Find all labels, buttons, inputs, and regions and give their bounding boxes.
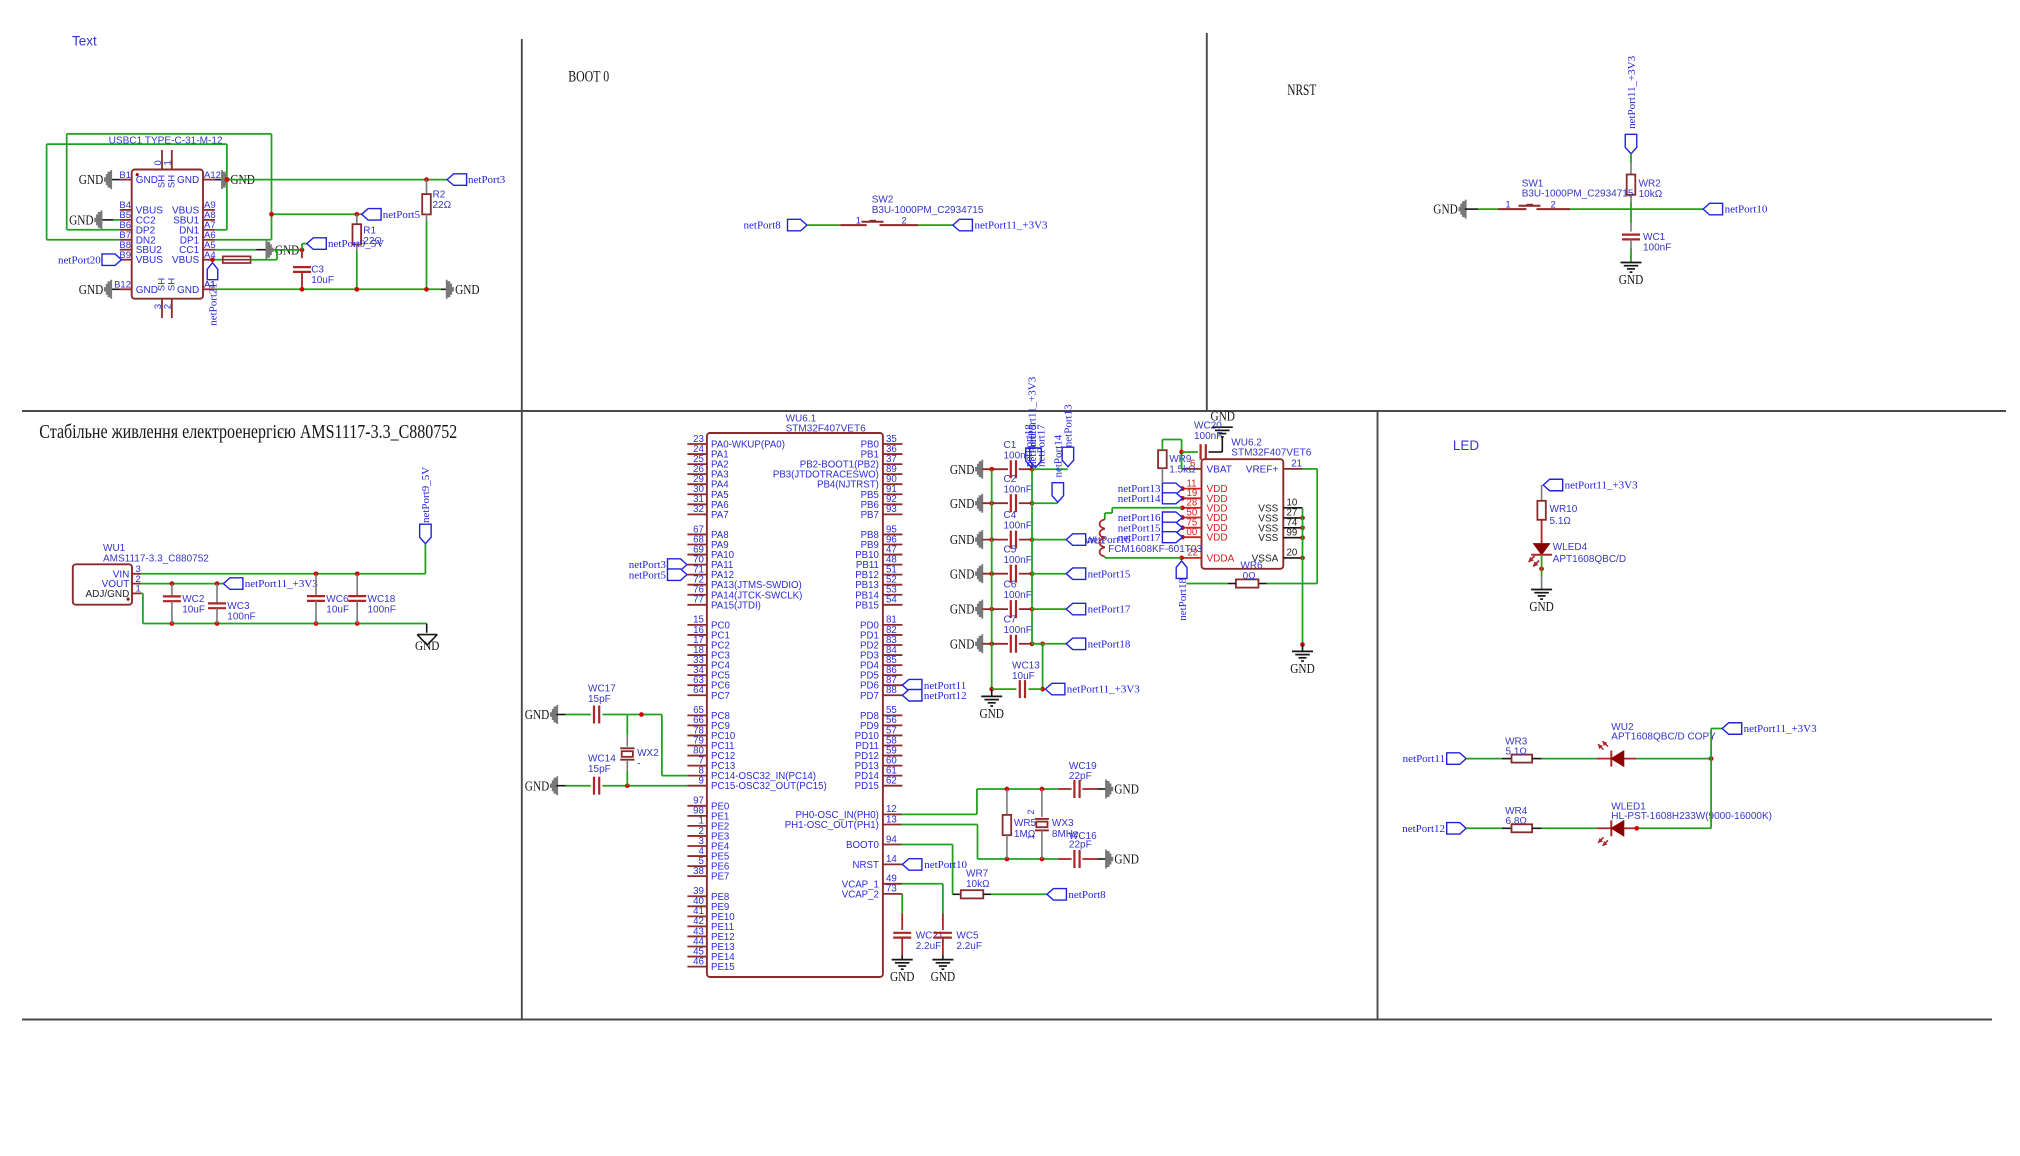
svg-text:PB15: PB15: [855, 600, 879, 611]
svg-text:Text: Text: [72, 34, 97, 49]
svg-text:netPort11_+3V3: netPort11_+3V3: [1067, 684, 1141, 696]
svg-text:GND: GND: [1433, 203, 1458, 218]
svg-text:netPort17: netPort17: [1118, 532, 1161, 544]
svg-text:GND: GND: [136, 285, 158, 296]
svg-text:100nF: 100nF: [1004, 484, 1032, 495]
svg-text:B3U-1000PM_C2934715: B3U-1000PM_C2934715: [1522, 189, 1634, 200]
svg-text:GND: GND: [275, 243, 300, 258]
svg-text:GND: GND: [979, 707, 1004, 722]
svg-text:GND: GND: [69, 214, 94, 229]
svg-text:5.1Ω: 5.1Ω: [1506, 746, 1528, 757]
svg-text:netPort11_+3V3: netPort11_+3V3: [975, 220, 1049, 232]
svg-text:C2: C2: [1004, 474, 1017, 485]
svg-text:21: 21: [1291, 459, 1302, 470]
svg-text:2.2uF: 2.2uF: [956, 941, 982, 952]
svg-text:100nF: 100nF: [1004, 555, 1032, 566]
svg-text:C1: C1: [1004, 440, 1017, 451]
svg-text:10uF: 10uF: [182, 605, 205, 616]
svg-text:2.2uF: 2.2uF: [916, 941, 942, 952]
svg-text:VCAP_2: VCAP_2: [842, 889, 879, 900]
svg-text:B1: B1: [119, 170, 131, 181]
svg-text:PE15: PE15: [711, 962, 735, 973]
svg-text:100nF: 100nF: [1004, 590, 1032, 601]
svg-text:77: 77: [693, 595, 704, 606]
svg-text:SH: SH: [166, 175, 177, 188]
svg-text:13: 13: [886, 814, 897, 825]
svg-text:VBUS: VBUS: [136, 255, 164, 266]
svg-text:A1: A1: [204, 279, 216, 290]
svg-text:GND: GND: [136, 175, 158, 186]
svg-text:SW1: SW1: [1522, 178, 1544, 189]
svg-text:GND: GND: [525, 708, 550, 723]
svg-text:2: 2: [1026, 809, 1036, 814]
svg-text:HL-PST-1608H233W(9000-16000K): HL-PST-1608H233W(9000-16000K): [1611, 811, 1772, 822]
svg-text:WC2: WC2: [182, 594, 205, 605]
svg-text:APT1608QBC/D: APT1608QBC/D: [1553, 554, 1626, 565]
svg-text:PD15: PD15: [855, 781, 879, 792]
svg-text:AMS1117-3.3_C880752: AMS1117-3.3_C880752: [103, 554, 209, 565]
svg-text:netPort15: netPort15: [1088, 568, 1131, 580]
svg-text:GND: GND: [950, 567, 975, 582]
svg-text:1.5kΩ: 1.5kΩ: [1169, 465, 1196, 476]
svg-text:WU1: WU1: [103, 543, 126, 554]
svg-text:WC1: WC1: [1643, 232, 1666, 243]
svg-text:netPort10: netPort10: [924, 859, 967, 871]
svg-text:netPort17: netPort17: [1088, 604, 1131, 616]
svg-text:GND: GND: [177, 175, 199, 186]
svg-text:GND: GND: [177, 285, 199, 296]
svg-text:netPort18: netPort18: [1023, 424, 1035, 467]
svg-text:WC3: WC3: [227, 601, 250, 612]
svg-text:GND: GND: [455, 283, 480, 298]
svg-text:54: 54: [886, 595, 897, 606]
svg-text:88: 88: [886, 685, 897, 696]
svg-text:netPort8: netPort8: [1068, 889, 1106, 901]
svg-text:C5: C5: [1004, 544, 1017, 555]
svg-text:8MHz: 8MHz: [1052, 829, 1078, 840]
svg-text:SH: SH: [166, 278, 177, 291]
svg-text:PA15(JTDI): PA15(JTDI): [711, 600, 761, 611]
svg-text:1: 1: [1505, 200, 1510, 211]
svg-text:WC5: WC5: [956, 931, 979, 942]
svg-text:netPort20: netPort20: [58, 254, 101, 266]
svg-text:PD7: PD7: [860, 691, 879, 702]
svg-text:64: 64: [693, 685, 704, 696]
svg-text:C3: C3: [311, 265, 324, 276]
svg-text:C7: C7: [1004, 614, 1017, 625]
svg-text:10uF: 10uF: [311, 275, 334, 286]
svg-text:GND: GND: [1529, 600, 1554, 615]
svg-text:B3U-1000PM_C2934715: B3U-1000PM_C2934715: [872, 205, 984, 216]
svg-text:STM32F407VET6: STM32F407VET6: [1231, 447, 1311, 458]
svg-text:netPort17: netPort17: [1036, 424, 1048, 467]
svg-text:93: 93: [886, 504, 897, 515]
svg-text:PE7: PE7: [711, 872, 729, 883]
svg-text:C6: C6: [1004, 580, 1017, 591]
svg-text:VBUS: VBUS: [172, 255, 200, 266]
svg-text:LED: LED: [1453, 438, 1480, 453]
svg-text:WR7: WR7: [966, 869, 989, 880]
svg-text:20: 20: [1287, 548, 1298, 559]
svg-text:99: 99: [1287, 528, 1298, 539]
svg-text:100nF: 100nF: [227, 612, 255, 623]
svg-text:WC18: WC18: [368, 594, 396, 605]
svg-text:netPort10: netPort10: [1725, 204, 1768, 216]
svg-text:1: 1: [856, 216, 861, 227]
svg-text:GND: GND: [79, 283, 104, 298]
svg-text:5.1Ω: 5.1Ω: [1550, 516, 1572, 527]
svg-text:netPort11: netPort11: [1403, 753, 1445, 765]
svg-text:netPort18: netPort18: [1088, 638, 1131, 650]
svg-text:62: 62: [886, 776, 897, 787]
svg-text:6.8Ω: 6.8Ω: [1506, 816, 1528, 827]
svg-text:100nF: 100nF: [1643, 243, 1671, 254]
svg-text:USBC1 TYPE-C-31-M-12: USBC1 TYPE-C-31-M-12: [109, 135, 223, 147]
svg-text:GND: GND: [1114, 783, 1139, 798]
svg-text:WR10: WR10: [1550, 504, 1578, 515]
svg-text:WC6: WC6: [326, 594, 349, 605]
svg-text:WR9: WR9: [1169, 454, 1192, 465]
svg-text:GND: GND: [950, 637, 975, 652]
svg-text:GND: GND: [890, 970, 915, 985]
svg-text:PA7: PA7: [711, 510, 729, 521]
svg-text:VDD: VDD: [1207, 533, 1228, 544]
svg-text:22pF: 22pF: [1069, 839, 1092, 850]
svg-text:32: 32: [693, 504, 704, 515]
svg-text:PC15-OSC32_OUT(PC15): PC15-OSC32_OUT(PC15): [711, 781, 827, 792]
svg-text:GND: GND: [525, 779, 550, 794]
svg-text:WR6: WR6: [1240, 561, 1263, 572]
svg-text:22Ω: 22Ω: [433, 200, 452, 211]
svg-text:2: 2: [901, 216, 906, 227]
svg-text:netPort11_+3V3: netPort11_+3V3: [245, 578, 319, 590]
svg-text:14: 14: [886, 854, 897, 865]
svg-text:1: 1: [136, 584, 141, 595]
svg-text:WC20: WC20: [1194, 421, 1222, 432]
svg-text:VSS: VSS: [1258, 533, 1278, 544]
svg-text:WC14: WC14: [588, 754, 616, 765]
svg-text:10kΩ: 10kΩ: [1639, 189, 1663, 200]
svg-text:WC13: WC13: [1012, 661, 1040, 672]
svg-text:netPort9_5V: netPort9_5V: [420, 467, 432, 523]
svg-text:ADJ/GND: ADJ/GND: [85, 589, 129, 600]
svg-text:WX2: WX2: [637, 748, 659, 759]
svg-text:netPort11_+3V3: netPort11_+3V3: [1626, 55, 1638, 129]
svg-text:0Ω: 0Ω: [1243, 571, 1257, 582]
svg-text:NRST: NRST: [1287, 82, 1316, 99]
svg-text:GND: GND: [1114, 853, 1139, 868]
svg-text:22pF: 22pF: [1069, 771, 1092, 782]
svg-text:WC17: WC17: [588, 684, 616, 695]
svg-text:94: 94: [886, 834, 897, 845]
svg-text:00: 00: [1187, 527, 1198, 538]
svg-text:-: -: [637, 759, 640, 770]
svg-text:10uF: 10uF: [326, 604, 349, 615]
svg-text:WR5: WR5: [1014, 818, 1037, 829]
svg-text:netPort14: netPort14: [1118, 493, 1161, 505]
svg-text:PC7: PC7: [711, 691, 730, 702]
svg-text:10kΩ: 10kΩ: [966, 879, 990, 890]
svg-text:38: 38: [693, 866, 704, 877]
svg-text:netPort11_+3V3: netPort11_+3V3: [1565, 480, 1639, 492]
svg-text:VBAT: VBAT: [1207, 464, 1232, 475]
svg-text:PB7: PB7: [861, 510, 879, 521]
svg-text:Стабільне живлення електроенер: Стабільне живлення електроенергією AMS11…: [39, 421, 457, 443]
svg-text:GND: GND: [950, 463, 975, 478]
svg-text:netPort5: netPort5: [383, 209, 421, 221]
svg-text:APT1608QBC/D COPY: APT1608QBC/D COPY: [1611, 732, 1716, 743]
svg-text:VDDA: VDDA: [1207, 553, 1235, 564]
svg-text:15pF: 15pF: [588, 694, 611, 705]
svg-text:GND: GND: [950, 603, 975, 618]
svg-text:FCM1608KF-601T03: FCM1608KF-601T03: [1108, 544, 1202, 555]
svg-text:GND: GND: [950, 497, 975, 512]
svg-text:netPort3: netPort3: [468, 174, 506, 186]
svg-text:100nF: 100nF: [1004, 625, 1032, 636]
svg-text:R2: R2: [433, 190, 446, 201]
svg-text:netPort12: netPort12: [924, 690, 967, 702]
svg-text:15pF: 15pF: [588, 764, 611, 775]
svg-text:GND: GND: [1619, 273, 1644, 288]
svg-text:WX3: WX3: [1052, 818, 1074, 829]
svg-text:1: 1: [163, 160, 174, 165]
svg-text:WR2: WR2: [1639, 179, 1662, 190]
svg-text:R1: R1: [363, 226, 376, 237]
svg-text:GND: GND: [415, 639, 440, 653]
svg-text:BOOT 0: BOOT 0: [568, 69, 609, 86]
svg-text:SW2: SW2: [872, 195, 894, 206]
svg-text:GND: GND: [931, 970, 956, 985]
svg-text:netPort5: netPort5: [629, 569, 667, 581]
svg-text:100nF: 100nF: [1004, 521, 1032, 532]
svg-text:netPort9_5V: netPort9_5V: [328, 238, 384, 250]
svg-text:GND: GND: [950, 533, 975, 548]
svg-text:netPort12: netPort12: [1402, 823, 1445, 835]
svg-text:2: 2: [163, 304, 174, 309]
svg-text:C4: C4: [1004, 510, 1017, 521]
svg-text:GND: GND: [1290, 662, 1315, 677]
svg-text:GND: GND: [230, 173, 255, 188]
svg-text:netPort11_+3V3: netPort11_+3V3: [1744, 723, 1818, 735]
svg-text:BOOT0: BOOT0: [846, 840, 879, 851]
svg-text:PH1-OSC_OUT(PH1): PH1-OSC_OUT(PH1): [785, 820, 879, 831]
svg-text:VREF+: VREF+: [1246, 464, 1279, 475]
svg-text:WLED4: WLED4: [1553, 542, 1588, 553]
svg-text:100nF: 100nF: [368, 604, 396, 615]
svg-text:73: 73: [886, 884, 897, 895]
svg-text:100nF: 100nF: [1194, 431, 1222, 442]
svg-text:9: 9: [699, 776, 704, 787]
svg-text:netPort8: netPort8: [744, 220, 782, 232]
svg-text:netPort14: netPort14: [1053, 434, 1065, 477]
svg-text:NRST: NRST: [853, 860, 879, 871]
svg-text:2: 2: [1551, 200, 1556, 211]
svg-text:GND: GND: [79, 173, 104, 188]
svg-text:1: 1: [1026, 834, 1036, 839]
svg-text:46: 46: [693, 956, 704, 967]
svg-text:10uF: 10uF: [1012, 671, 1035, 682]
